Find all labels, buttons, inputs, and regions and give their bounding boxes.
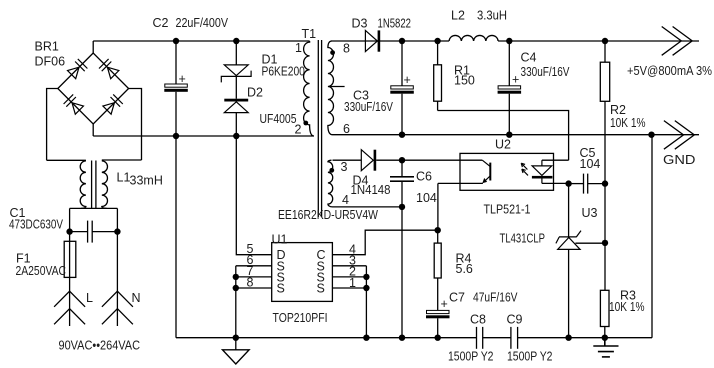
op-amp/IC U1 TOP210PFI <box>272 243 333 302</box>
ground (primary, triangle) <box>223 338 250 364</box>
node: C1 right <box>114 228 120 234</box>
L1 core lines <box>91 161 93 209</box>
node: C5 right / divider <box>602 180 608 186</box>
capacitor C7 <box>426 297 450 338</box>
wire: U1 pin6 stub <box>236 265 272 267</box>
resistor R1 <box>434 41 442 111</box>
svg-text:UF4005: UF4005 <box>260 112 297 126</box>
svg-text:3.3uH: 3.3uH <box>477 9 507 23</box>
node: L2 right / C4 top <box>506 38 512 44</box>
svg-text:2: 2 <box>295 123 302 137</box>
node: C2 top <box>173 38 179 44</box>
node: C7 bottom <box>435 335 441 341</box>
svg-text:N: N <box>132 291 141 305</box>
svg-text:+: + <box>512 73 519 87</box>
node: D4 cathode / C6 top <box>399 157 405 163</box>
shunt regulator U3 TL431CLP <box>556 184 605 338</box>
svg-text:22uF/400V: 22uF/400V <box>176 16 229 30</box>
node: C5 left / LED cathode <box>565 180 571 186</box>
diode D3 1N5822 <box>365 30 380 51</box>
svg-text:10K 1%: 10K 1% <box>609 300 645 314</box>
node: U1 pin7 <box>233 274 239 280</box>
svg-text:BR1: BR1 <box>35 40 59 54</box>
T1 core lines <box>317 40 319 217</box>
output arrow GND <box>664 121 694 150</box>
wire: divider vertical R2 bottom through C5 node to TL431 ref and R3 <box>604 184 606 291</box>
node: C6 bottom / aux return <box>399 204 405 210</box>
svg-text:C7: C7 <box>449 291 465 305</box>
node: D1 top <box>233 38 239 44</box>
svg-text:1500P Y2: 1500P Y2 <box>507 350 553 364</box>
svg-text:L: L <box>86 291 93 305</box>
svg-text:D3: D3 <box>352 17 368 31</box>
svg-text:R2: R2 <box>610 103 626 117</box>
svg-text:C9: C9 <box>507 313 523 327</box>
wire: primary bottom rail (bridge minus to T1 pin2) <box>93 135 313 137</box>
diode D2 UF4005 <box>224 99 248 136</box>
node: C3 bottom <box>399 132 405 138</box>
wire: U1 pin1 stub <box>332 287 366 289</box>
svg-text:D2: D2 <box>247 86 263 100</box>
capacitor C8 <box>477 327 483 349</box>
svg-text:150: 150 <box>454 74 475 88</box>
wire: U1 pin8 stub <box>236 287 272 289</box>
T1 polarity dot pin2 <box>303 121 308 126</box>
wire: bridge left corner to L1 left winding <box>47 159 86 161</box>
wire: U1 pin5 drain stub and vertical up to T1 pin2 node <box>236 136 271 255</box>
T1 primary winding pin1-pin2 <box>304 41 314 136</box>
T1 aux winding pin3-pin4 <box>328 160 333 207</box>
inductor L2 <box>449 35 498 41</box>
svg-text:6: 6 <box>343 122 350 136</box>
T1 polarity dot pin3 <box>329 168 334 173</box>
svg-text:1500P Y2: 1500P Y2 <box>448 350 494 364</box>
output arrow +5V <box>662 27 693 56</box>
capacitor C1 <box>70 208 118 291</box>
wire: bottom ground rail left segment <box>176 337 477 339</box>
svg-text:C6: C6 <box>416 170 432 184</box>
resistor R3 <box>600 290 609 337</box>
svg-text:GND: GND <box>663 153 696 167</box>
node: TL431 ref <box>602 240 608 246</box>
node: C3 top <box>399 38 405 44</box>
svg-text:2A250VAC: 2A250VAC <box>16 264 67 278</box>
L1 left winding <box>80 161 86 209</box>
optocoupler U2 TLP521-1 <box>438 153 569 190</box>
bridge diode upper-right <box>99 59 119 79</box>
svg-text:U2: U2 <box>495 138 511 152</box>
wire: primary HV top rail <box>93 40 309 42</box>
resistor R4 <box>434 230 441 310</box>
capacitor C2 <box>164 41 188 136</box>
svg-text:TL431CLP: TL431CLP <box>500 232 546 246</box>
svg-text:5.6: 5.6 <box>456 262 473 276</box>
svg-text:C2: C2 <box>153 16 169 30</box>
wire: U1 pin4 control stub up and over to R4 top <box>332 230 437 255</box>
bridge diode lower-right <box>103 94 123 114</box>
svg-text:90VAC••264VAC: 90VAC••264VAC <box>59 339 141 353</box>
wire: L1 bottom bar <box>70 207 118 209</box>
capacitor C5 <box>569 174 605 194</box>
earth ground (secondary) <box>593 338 618 357</box>
resistor R2 <box>600 41 609 184</box>
wire: source vertical down to primary ground <box>235 266 237 338</box>
svg-text:U1: U1 <box>272 233 288 247</box>
svg-text:47uF/16V: 47uF/16V <box>473 291 518 305</box>
svg-text:S: S <box>277 282 285 296</box>
wire: aux pin4 line to C6 bottom and down to ground rail <box>333 207 403 338</box>
svg-text:473DC630V: 473DC630V <box>9 218 64 232</box>
svg-text:4: 4 <box>342 193 349 207</box>
wire: right vertical joining output GND rail to bottom rail <box>651 135 653 338</box>
fuse F1 <box>64 241 76 291</box>
wire: bottom ground rail middle segment between C8 and C9 <box>483 337 511 339</box>
U2 light arrows <box>521 163 528 175</box>
svg-text:T1: T1 <box>302 27 317 41</box>
node: U1 pin2 <box>363 274 369 280</box>
svg-text:+: + <box>179 72 186 86</box>
node: C1 left <box>66 228 72 234</box>
svg-text:8: 8 <box>343 41 350 55</box>
svg-text:P6KE200: P6KE200 <box>262 65 305 79</box>
svg-text:330uF/16V: 330uF/16V <box>521 65 571 79</box>
U3 ref line to divider <box>575 242 605 244</box>
svg-text:TOP210PFI: TOP210PFI <box>273 311 328 325</box>
node: source right vertical at gnd <box>363 335 369 341</box>
svg-text:TLP521-1: TLP521-1 <box>484 203 531 217</box>
bridge diode lower-left <box>64 94 84 114</box>
svg-text:1N4148: 1N4148 <box>351 183 391 197</box>
T1 polarity dot pin8 <box>330 50 335 55</box>
wire: right source vertical down to primary ground rail <box>365 266 367 338</box>
capacitor C9 <box>511 327 518 349</box>
U2 phototransistor <box>482 160 490 166</box>
TVS diode D1 P6KE200 <box>221 41 251 99</box>
U2 LED <box>542 159 569 161</box>
svg-text:S: S <box>317 282 325 296</box>
svg-text:1N5822: 1N5822 <box>378 17 412 31</box>
input terminal N <box>102 291 133 326</box>
svg-text:104: 104 <box>416 191 437 205</box>
svg-text:L1: L1 <box>117 171 131 185</box>
wire: bottom ground rail right segment <box>518 337 652 339</box>
wire: emitter down to R4 top node <box>437 183 439 230</box>
wire: U1 pin3 stub <box>332 265 366 267</box>
wire: secondary top rail (left of L2) <box>331 40 449 42</box>
node: primary gnd at source <box>233 335 239 341</box>
node: L2 left / R1 top <box>434 38 440 44</box>
T1 secondary tap stub <box>329 86 345 88</box>
svg-text:L2: L2 <box>451 9 465 23</box>
inductor L1 common-mode choke <box>47 160 142 209</box>
wire: R1 bottom over to opto LED anode <box>438 111 569 161</box>
node: U1 pin1 <box>363 285 369 291</box>
svg-text:33mH: 33mH <box>130 174 163 188</box>
svg-text:EE16R2KD-UR5V4W: EE16R2KD-UR5V4W <box>278 208 378 222</box>
node: aux return at gnd <box>399 335 405 341</box>
node: C2 bottom <box>173 133 179 139</box>
node: R2 top <box>602 38 608 44</box>
svg-text:+5V@800mA 3%: +5V@800mA 3% <box>627 64 712 78</box>
capacitor C3 <box>390 41 414 135</box>
svg-text:1: 1 <box>295 41 302 55</box>
node: R3 bottom / earth <box>602 335 608 341</box>
bridge diode upper-left <box>68 59 88 79</box>
input terminal L <box>54 291 85 326</box>
capacitor C4 <box>498 41 521 135</box>
node: C4 bottom <box>506 132 512 138</box>
diode D4 1N4148 <box>333 150 483 171</box>
capacitor C6 <box>390 160 414 207</box>
svg-text:+: + <box>441 297 448 311</box>
wire: secondary top rail (right of L2 to +5V arrow) <box>498 40 699 42</box>
svg-text:10K 1%: 10K 1% <box>610 116 646 130</box>
node: R4 top / control <box>435 227 441 233</box>
svg-text:C8: C8 <box>470 313 486 327</box>
node: GND rail corner <box>648 132 654 138</box>
wire: secondary ground rail (T1 pin6 to GND arrow) <box>333 134 700 136</box>
L1 right winding <box>102 161 108 209</box>
T1 secondary winding pin8-pin6 <box>328 41 334 135</box>
node: TL431 anode at gnd <box>565 335 571 341</box>
bridge rectifier BR1 <box>47 41 142 160</box>
svg-text:3: 3 <box>341 160 348 174</box>
wire: U1 pin7 stub <box>236 276 272 278</box>
svg-text:U3: U3 <box>582 206 598 220</box>
svg-text:+: + <box>404 73 411 87</box>
node: D2 bottom / drain <box>233 133 239 139</box>
node: U1 pin8 <box>233 285 239 291</box>
svg-text:C4: C4 <box>521 51 537 65</box>
svg-text:DF06: DF06 <box>35 55 66 69</box>
svg-text:104: 104 <box>580 157 601 171</box>
wire: left vertical from C2 bottom down to primary ground rail <box>175 136 177 338</box>
svg-text:330uF/16V: 330uF/16V <box>344 100 394 114</box>
wire: L1 right winding top to bridge right corner <box>102 159 142 161</box>
transformer T1 <box>303 40 344 217</box>
wire: U1 pin2 stub <box>332 276 366 278</box>
